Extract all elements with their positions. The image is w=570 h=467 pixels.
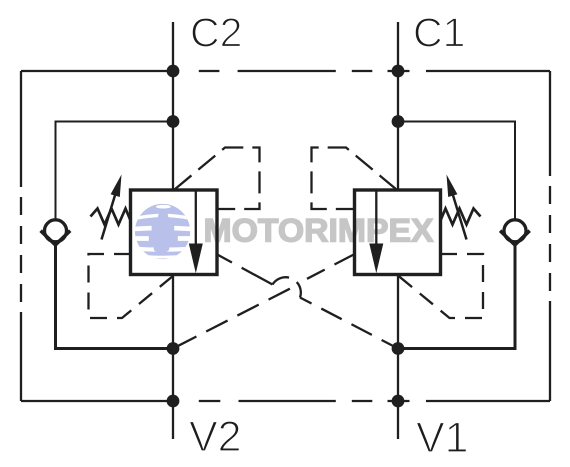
watermark globe (134, 204, 192, 259)
CB1 vent pilot line (dashed) (398, 254, 483, 318)
check valve CV1 ball (504, 220, 526, 242)
svg-text:V2: V2 (189, 413, 242, 461)
CB2 pilot hook (dashed) (175, 148, 260, 210)
wire top-right horizontal (426, 70, 550, 72)
wire V1 port stub (397, 401, 399, 439)
wire C1 branch to check valve CV1 (398, 122, 515, 221)
CB1 pilot hook (dashed) (312, 148, 397, 210)
svg-text:MOTORIMPEX: MOTORIMPEX (204, 213, 435, 249)
junction dot V1 lower (392, 395, 405, 408)
CB2 vent pilot line (dashed) (89, 254, 174, 318)
wire valve CB2 outlet to V2 junction (172, 275, 174, 402)
pilot line hop arc (273, 277, 301, 297)
pilot line CB1 to V2 (dashed diagonal, lower part) (173, 289, 290, 349)
wire right edge dashed middle (549, 176, 551, 301)
CB2 flow arrow (189, 244, 203, 274)
wire left edge (20, 71, 22, 401)
wire check valve CV1 to V1 junction (398, 244, 515, 349)
svg-text:V1: V1 (416, 414, 469, 462)
check valve CV2 ball (45, 220, 67, 242)
pilot line CB2 to V1 (dashed diagonal, with hop) (217, 254, 273, 284)
wire V2 port stub (172, 401, 174, 439)
CB1 adjustment arrow head (447, 175, 458, 198)
pilot line CB2 to V1 lower part (300, 298, 398, 349)
CB1 adjustment arrow shaft (452, 192, 467, 240)
junction dot V2 lower (167, 395, 180, 408)
svg-text:C2: C2 (190, 10, 242, 56)
check valve CV2 seat (41, 231, 71, 245)
wire C2 port stub (172, 22, 174, 190)
counterbalance valve CB2 body (131, 190, 218, 275)
CB1 flow arrow (369, 244, 383, 274)
wire top-left horizontal (21, 70, 173, 72)
CB1 spring (441, 209, 481, 225)
junction dot V1 upper (392, 342, 405, 355)
wire bottom-right horizontal (426, 400, 550, 402)
junction dot V2 upper (167, 342, 180, 355)
wire C1 port stub (397, 22, 399, 190)
counterbalance valve CB1 body (355, 190, 441, 275)
junction dot C1 lower (392, 115, 405, 128)
junction dot C1 upper (392, 65, 405, 78)
junction dot C2 lower (167, 115, 180, 128)
svg-text:C1: C1 (413, 10, 465, 56)
wire C2 branch to check valve CV2 (56, 122, 174, 221)
wire valve CB1 outlet to V1 junction (397, 275, 399, 402)
CB2 adjustment arrow shaft (102, 192, 117, 240)
wire top dashed C2-C1 (199, 70, 410, 72)
CB2 spring (91, 209, 131, 225)
junction dot C2 upper (167, 65, 180, 78)
CB2 internal flow line (195, 190, 197, 246)
wire bottom-left horizontal (21, 400, 173, 402)
wire check valve CV2 to V2 junction (56, 244, 174, 349)
wire bottom dashed V2-V1 (199, 400, 410, 402)
wire left edge dashed middle (20, 187, 22, 312)
CB1 internal flow line (375, 190, 377, 246)
wire right edge (549, 71, 551, 401)
CB2 adjustment arrow head (111, 175, 122, 198)
pilot line CB1 to V2 (dashed diagonal, upper part) (307, 254, 354, 278)
check valve CV1 seat (500, 231, 530, 245)
